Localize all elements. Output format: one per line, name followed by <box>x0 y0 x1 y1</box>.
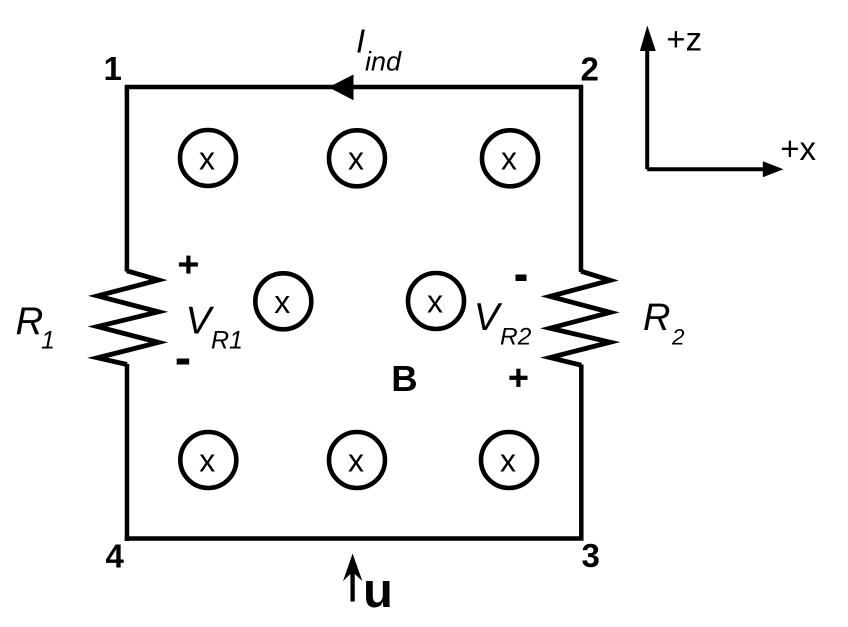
svg-text:x: x <box>348 141 364 177</box>
svg-text:R2: R2 <box>500 324 532 351</box>
svg-text:I: I <box>356 22 365 59</box>
svg-text:1: 1 <box>41 327 55 355</box>
svg-text:ind: ind <box>365 47 402 77</box>
svg-text:x: x <box>199 443 215 479</box>
svg-text:x: x <box>501 141 517 177</box>
svg-text:x: x <box>348 443 364 479</box>
svg-text:R1: R1 <box>211 326 243 354</box>
svg-text:x: x <box>427 284 443 320</box>
svg-text:+x: +x <box>780 130 816 167</box>
svg-text:x: x <box>500 443 516 479</box>
svg-text:B: B <box>391 358 417 399</box>
svg-text:1: 1 <box>104 50 122 87</box>
svg-text:V: V <box>474 296 503 339</box>
svg-text:2: 2 <box>581 51 599 88</box>
svg-text:R: R <box>643 297 670 339</box>
svg-text:x: x <box>199 141 215 177</box>
svg-text:2: 2 <box>671 324 685 349</box>
svg-text:R: R <box>16 300 44 343</box>
svg-text:+z: +z <box>666 21 702 58</box>
svg-text:3: 3 <box>582 537 600 574</box>
svg-text:x: x <box>274 284 290 320</box>
svg-text:4: 4 <box>106 537 125 574</box>
svg-text:u: u <box>363 564 393 618</box>
